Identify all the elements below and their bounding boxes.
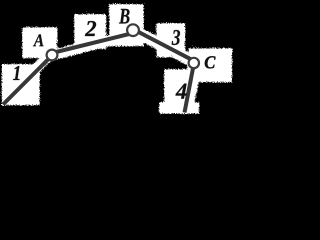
label C [205,56,216,68]
white strip below 4 [158,101,198,113]
label A [33,34,43,46]
white label box for 3 [155,22,184,56]
joint C circle [189,58,199,68]
label 4 [176,84,187,99]
white band along link 4 [176,61,201,112]
label 3 [172,30,180,45]
white label box for B [108,3,143,45]
white label box for 1 [1,63,39,104]
link 2 (line from joint A to joint B) [50,34,130,54]
label B [119,9,129,24]
label 1 [13,66,19,80]
white label box for 2 [73,13,105,48]
white label box for C [188,47,232,81]
link 1 (line from frame pivot to joint A) [3,56,52,105]
link 3 (line from joint B to joint C) [134,30,196,62]
white label box for 4 [163,68,187,107]
joint B circle [127,24,139,36]
white label box for A [21,26,56,57]
joint A circle [47,50,58,61]
link 4 (line from joint C downward) [185,63,195,113]
white band along link 1 [20,52,50,82]
white band along link 2 [49,28,133,59]
white band along link 3 [130,25,200,69]
label 2 [85,21,96,36]
